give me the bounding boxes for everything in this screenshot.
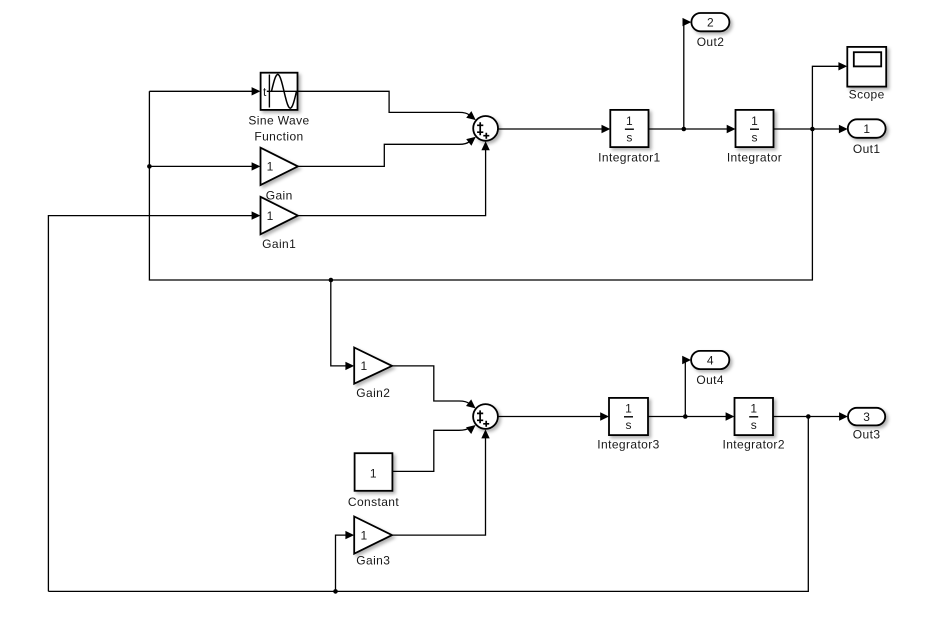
- wire Gain output to Sum lower-left input: [298, 137, 476, 167]
- svg-text:1: 1: [370, 466, 377, 480]
- wire Gain2 output to Sum2 upper input: [392, 366, 476, 409]
- block Integrator: [727, 110, 782, 165]
- svg-text:Constant: Constant: [348, 495, 399, 509]
- port Out2: [691, 13, 729, 49]
- svg-text:1: 1: [863, 122, 870, 136]
- svg-text:Integrator1: Integrator1: [598, 151, 660, 165]
- port Out4: [691, 351, 729, 387]
- svg-text:Function: Function: [254, 130, 303, 144]
- svg-text:1: 1: [750, 401, 757, 415]
- svg-text:2: 2: [707, 15, 714, 29]
- block Integrator1: [598, 110, 660, 165]
- port Out3: [848, 408, 885, 442]
- junction node bottom feedback to Gain3: [333, 589, 338, 594]
- svg-text:Gain2: Gain2: [356, 386, 390, 400]
- junction node feedback to Gain2 branch: [329, 278, 334, 283]
- wire Sum output to Integrator1: [498, 125, 610, 133]
- junction node after Integrator: [810, 127, 815, 132]
- block Sum2 (lower): [473, 404, 498, 429]
- junction node after Integrator2: [806, 414, 811, 419]
- junction node after Integrator3: [683, 414, 688, 419]
- svg-text:1: 1: [267, 209, 274, 223]
- svg-text:Scope: Scope: [849, 87, 885, 101]
- svg-text:Out4: Out4: [696, 373, 724, 387]
- block Constant: [348, 453, 399, 509]
- svg-text:1: 1: [751, 114, 758, 128]
- block Gain1: [261, 197, 298, 251]
- block Gain: [261, 148, 298, 203]
- block Sum (upper): [473, 116, 498, 141]
- wire branch down to Gain2 input: [331, 280, 354, 370]
- wire feedback from Integrator output down and left (net X1): [149, 91, 812, 280]
- block Gain2: [354, 348, 392, 401]
- wire Integrator1 output to Integrator: [649, 125, 736, 133]
- wire Gain input: [149, 162, 260, 170]
- svg-text:Out2: Out2: [697, 35, 725, 49]
- wire branch up to Gain3 input: [336, 531, 355, 592]
- svg-text:Integrator: Integrator: [727, 151, 782, 165]
- junction node after Integrator1: [682, 127, 687, 132]
- wire tap up to Out2: [683, 18, 692, 129]
- wire bottom feedback from Integrator2 output: [48, 417, 808, 592]
- wire Integrator output to Out1: [774, 125, 848, 133]
- block Sine Wave Function: [248, 73, 309, 144]
- svg-text:Gain1: Gain1: [262, 237, 296, 251]
- svg-text:Integrator3: Integrator3: [597, 437, 659, 451]
- svg-text:3: 3: [863, 410, 870, 424]
- wire Sum1 output to Integrator3: [498, 412, 609, 420]
- wire Integrator2 output to Out3: [773, 412, 848, 420]
- wire tap up to Scope: [812, 62, 847, 129]
- wire left rail from bottom feedback to Gain1 input: [48, 211, 260, 591]
- wire Gain3 output to Sum2 bottom input: [392, 429, 490, 535]
- svg-text:1: 1: [625, 401, 632, 415]
- wire Gain1 output to Sum bottom input: [298, 141, 490, 215]
- svg-text:s: s: [751, 418, 757, 432]
- svg-text:s: s: [626, 418, 632, 432]
- svg-text:1: 1: [361, 528, 368, 542]
- block Integrator2: [722, 398, 784, 452]
- svg-text:s: s: [752, 130, 758, 144]
- block Scope: [847, 47, 886, 101]
- wire Constant output to Sum2 lower-left input: [392, 425, 475, 471]
- svg-text:Out3: Out3: [853, 427, 881, 441]
- block Gain3: [354, 517, 392, 568]
- svg-text:Sine Wave: Sine Wave: [248, 114, 309, 128]
- port Out1: [848, 119, 886, 156]
- block Integrator3: [597, 398, 659, 452]
- wire Sine Wave Function input: [149, 87, 260, 95]
- junction node at Gain input tap: [147, 164, 152, 169]
- wire Integrator3 output to Integrator2: [648, 412, 734, 420]
- svg-text:Integrator2: Integrator2: [722, 437, 784, 451]
- svg-text:4: 4: [707, 353, 714, 367]
- svg-text:1: 1: [267, 160, 274, 174]
- wire Sine Wave output to Sum upper input: [298, 91, 476, 120]
- svg-text:s: s: [626, 130, 632, 144]
- svg-text:Out1: Out1: [853, 142, 881, 156]
- wire tap up to Out4: [682, 356, 691, 417]
- svg-text:1: 1: [361, 359, 368, 373]
- svg-text:1: 1: [626, 114, 633, 128]
- svg-text:Gain3: Gain3: [356, 553, 390, 567]
